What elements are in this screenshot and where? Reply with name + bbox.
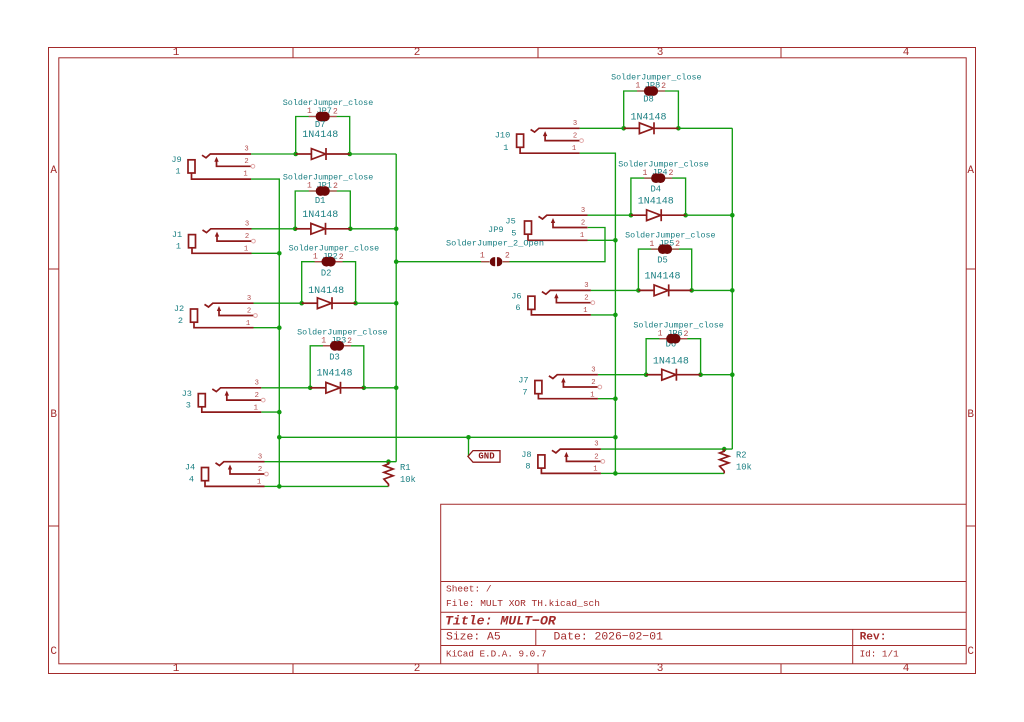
wire jumper loop JP4 <box>631 178 686 215</box>
svg-text:1N4148: 1N4148 <box>653 357 689 368</box>
junction <box>613 238 618 243</box>
svg-text:2: 2 <box>584 295 588 303</box>
title block <box>441 504 967 664</box>
svg-text:1N4148: 1N4148 <box>302 130 338 141</box>
wire left sleeve bus <box>251 179 279 486</box>
svg-text:1: 1 <box>313 252 318 261</box>
junction <box>394 227 399 232</box>
svg-text:1: 1 <box>480 252 485 261</box>
junction <box>277 410 282 415</box>
connector J10 (audio jack) <box>495 120 584 153</box>
wire right OR bus <box>731 128 733 449</box>
pads of JP8 <box>637 90 665 92</box>
junction <box>613 313 618 318</box>
svg-text:J5: J5 <box>505 217 515 227</box>
junction <box>613 396 618 401</box>
junction <box>293 227 298 232</box>
svg-text:1: 1 <box>254 404 258 412</box>
svg-text:7: 7 <box>522 387 527 397</box>
diode D6 <box>646 339 701 380</box>
unconnected pin 2 end of J8 <box>601 460 605 464</box>
solder jumper JP5 <box>625 231 715 254</box>
svg-text:B: B <box>50 409 57 421</box>
svg-text:R2: R2 <box>736 450 747 460</box>
wire OR bus to JP9 pad1 <box>396 261 489 263</box>
solder jumper JP7 <box>283 98 373 121</box>
svg-text:1N4148: 1N4148 <box>316 369 352 380</box>
wire J4 pin1 to sleeve bus <box>265 485 280 487</box>
svg-text:2: 2 <box>573 133 577 141</box>
svg-text:Sheet: /: Sheet: / <box>446 584 492 595</box>
svg-text:8: 8 <box>525 462 530 472</box>
svg-text:2: 2 <box>684 330 689 339</box>
svg-text:3: 3 <box>591 366 595 374</box>
junction <box>730 372 735 377</box>
svg-text:R1: R1 <box>400 463 411 473</box>
svg-text:D4: D4 <box>651 185 662 195</box>
svg-text:2: 2 <box>347 337 352 346</box>
wire jumper loop JP6 <box>646 339 701 375</box>
wire J4 pin1 row to R1 <box>279 485 388 487</box>
svg-text:2: 2 <box>505 252 510 261</box>
pads of JP5 <box>651 248 679 250</box>
solder jumper JP4 <box>618 160 708 183</box>
wire J1 pin1 to sleeve bus <box>252 252 280 254</box>
svg-text:2: 2 <box>591 379 595 387</box>
svg-text:1N4148: 1N4148 <box>308 286 344 297</box>
pads of JP2 <box>315 261 343 263</box>
solder jumper JP9 (SolderJumper_2_Open) <box>446 225 544 266</box>
svg-text:J1: J1 <box>172 230 182 240</box>
svg-text:A: A <box>50 165 57 177</box>
svg-text:2: 2 <box>675 240 680 249</box>
svg-text:2: 2 <box>333 182 338 191</box>
junction <box>347 152 352 157</box>
svg-text:3: 3 <box>255 379 259 387</box>
junction <box>308 386 313 391</box>
svg-text:3: 3 <box>258 453 262 461</box>
junction <box>636 288 641 293</box>
svg-text:4: 4 <box>903 47 910 59</box>
pads of JP6 <box>659 338 687 340</box>
wire left OR bus <box>395 154 397 462</box>
svg-text:File: MULT XOR TH.kicad_sch: File: MULT XOR TH.kicad_sch <box>446 598 600 609</box>
svg-text:1: 1 <box>173 663 180 675</box>
svg-text:1N4148: 1N4148 <box>630 112 666 123</box>
connector J4 (audio jack) <box>185 453 268 486</box>
svg-text:3: 3 <box>245 220 249 228</box>
wire J5 pin3 to D4 <box>588 214 631 216</box>
svg-text:1: 1 <box>583 307 587 315</box>
svg-text:SolderJumper_2_Open: SolderJumper_2_Open <box>446 239 544 249</box>
wire J3 pin3 to D3 <box>261 387 310 389</box>
power label GND <box>468 451 500 463</box>
pads of JP1 <box>309 190 337 192</box>
wire J2 pin3 to D2 <box>254 302 302 304</box>
svg-text:3: 3 <box>594 441 598 449</box>
svg-text:2: 2 <box>244 158 248 166</box>
unconnected pin 2 end of J2 <box>254 314 258 318</box>
diode D3 <box>310 353 364 394</box>
junction <box>613 435 618 440</box>
svg-text:GND: GND <box>478 452 495 462</box>
svg-text:1: 1 <box>307 182 312 191</box>
junction <box>277 435 282 440</box>
junction <box>730 213 735 218</box>
wire J4 pin3 row <box>265 461 397 463</box>
svg-text:1: 1 <box>173 47 180 59</box>
svg-text:6: 6 <box>515 303 520 313</box>
svg-text:3: 3 <box>657 663 664 675</box>
svg-text:2: 2 <box>414 47 421 59</box>
svg-text:2: 2 <box>247 307 251 315</box>
svg-text:2: 2 <box>414 663 421 675</box>
svg-text:3: 3 <box>244 146 248 154</box>
junction <box>277 484 282 489</box>
svg-text:C: C <box>50 646 57 658</box>
svg-text:J6: J6 <box>511 291 521 301</box>
unconnected pin 2 end of J1 <box>252 239 256 243</box>
svg-text:3: 3 <box>584 282 588 290</box>
svg-text:1: 1 <box>643 169 648 178</box>
wire jumper loop JP1 <box>295 191 350 229</box>
junction <box>730 288 735 293</box>
svg-text:3: 3 <box>573 120 577 128</box>
wire J2 pin1 to sleeve bus <box>254 327 280 329</box>
connector J6 (audio jack) <box>511 282 594 315</box>
wire J9 pin3 to D7 <box>251 153 296 155</box>
svg-text:2: 2 <box>258 466 262 474</box>
junction <box>394 259 399 264</box>
junction <box>362 386 367 391</box>
svg-text:Title: MULT−OR: Title: MULT−OR <box>445 614 557 629</box>
svg-text:10k: 10k <box>736 462 752 472</box>
wire D8 cathode to OR bus <box>678 127 732 129</box>
wire D7 cathode to OR bus <box>350 153 397 155</box>
connector J3 (audio jack) <box>182 379 265 412</box>
junction <box>689 288 694 293</box>
junction <box>293 152 298 157</box>
connector J8 (audio jack) <box>521 441 604 474</box>
svg-text:2: 2 <box>178 316 183 326</box>
svg-text:4: 4 <box>903 663 910 675</box>
svg-text:D7: D7 <box>315 120 326 130</box>
svg-text:D8: D8 <box>643 95 654 105</box>
junction <box>629 213 634 218</box>
connector J2 (audio jack) <box>174 295 257 328</box>
pads of JP9 <box>481 261 489 263</box>
wire JP9 pad2 to J5 pin2 <box>503 228 605 262</box>
svg-text:1: 1 <box>593 466 597 474</box>
svg-text:J7: J7 <box>518 376 528 386</box>
svg-text:1: 1 <box>175 167 180 177</box>
junction <box>466 435 471 440</box>
connector J1 (audio jack) <box>172 220 255 253</box>
svg-text:Size: A5: Size: A5 <box>446 632 501 644</box>
connector J9 (audio jack) <box>171 146 254 180</box>
junction <box>386 459 391 464</box>
svg-text:J9: J9 <box>171 155 181 165</box>
wire jumper loop JP8 <box>624 91 679 128</box>
junction <box>644 372 649 377</box>
wire right sleeve bus <box>580 153 616 473</box>
pads of JP7 <box>309 116 337 118</box>
junction <box>348 227 353 232</box>
junction <box>613 471 618 476</box>
junction <box>353 301 358 306</box>
solder jumper JP6 <box>633 320 723 343</box>
diode D4 <box>631 185 686 222</box>
wire J6 pin1 to sleeve bus <box>591 314 616 316</box>
junction <box>722 447 727 452</box>
diode D7 <box>296 120 350 160</box>
svg-text:4: 4 <box>189 474 194 484</box>
solder jumper JP2 <box>289 243 379 266</box>
wire J7 pin3 to D6 <box>598 374 646 376</box>
svg-text:D3: D3 <box>329 353 340 363</box>
svg-text:A: A <box>967 165 974 177</box>
wire J7 pin1 to sleeve bus <box>598 398 616 400</box>
pads of JP4 <box>644 177 672 179</box>
svg-text:J10: J10 <box>495 131 510 141</box>
resistor R1 <box>384 462 416 487</box>
svg-text:Id: 1/1: Id: 1/1 <box>860 649 899 660</box>
wire J1 pin3 to D1 <box>252 228 296 230</box>
svg-text:1: 1 <box>572 145 576 153</box>
svg-text:3: 3 <box>186 400 191 410</box>
junction <box>683 213 688 218</box>
unconnected pin 2 end of J4 <box>265 472 269 476</box>
svg-text:3: 3 <box>657 47 664 59</box>
unconnected pin 2 end of J9 <box>251 164 255 168</box>
svg-text:2: 2 <box>594 453 598 461</box>
solder jumper JP3 <box>297 327 387 350</box>
svg-text:J8: J8 <box>521 450 531 460</box>
svg-text:1: 1 <box>243 171 247 179</box>
svg-text:1N4148: 1N4148 <box>644 272 680 283</box>
connector J7 (audio jack) <box>518 366 601 399</box>
svg-text:1: 1 <box>246 320 250 328</box>
wire GND row <box>279 436 615 438</box>
svg-text:D5: D5 <box>657 255 668 265</box>
svg-text:2: 2 <box>339 253 344 262</box>
unconnected pin 2 end of J7 <box>598 385 602 389</box>
wire jumper loop JP5 <box>638 249 691 290</box>
svg-text:2: 2 <box>581 219 585 227</box>
wire J8 pin3 row <box>601 448 732 450</box>
svg-text:3: 3 <box>581 207 585 215</box>
wire D5 cathode to OR bus <box>692 289 733 291</box>
svg-text:2: 2 <box>333 108 338 117</box>
wire D3 cathode to OR bus <box>364 387 396 389</box>
svg-text:Rev:: Rev: <box>860 632 887 644</box>
junction <box>676 126 681 131</box>
svg-text:D1: D1 <box>315 196 326 206</box>
svg-text:D2: D2 <box>321 268 332 278</box>
svg-text:2: 2 <box>668 169 673 178</box>
wire J3 pin1 to sleeve bus <box>261 411 279 413</box>
unconnected pin 2 end of J10 <box>580 139 584 143</box>
svg-text:J3: J3 <box>182 389 192 399</box>
unconnected pin 2 end of J6 <box>591 301 595 305</box>
svg-text:1: 1 <box>503 143 508 153</box>
svg-text:10k: 10k <box>400 475 416 485</box>
svg-text:2: 2 <box>245 233 249 241</box>
wire J6 pin3 to D5 <box>591 289 639 291</box>
svg-text:1: 1 <box>658 329 663 338</box>
junction <box>394 386 399 391</box>
svg-text:1: 1 <box>580 232 584 240</box>
svg-text:2: 2 <box>661 82 666 91</box>
wire J8 pin1 to sleeve bus <box>601 472 616 474</box>
wire jumper loop JP3 <box>310 346 364 388</box>
wire D1 cathode to OR bus <box>350 228 396 230</box>
wire D2 cathode to OR bus <box>356 302 397 304</box>
svg-text:1: 1 <box>244 245 248 253</box>
svg-text:1: 1 <box>649 240 654 249</box>
svg-text:1N4148: 1N4148 <box>638 197 674 208</box>
svg-text:KiCad E.D.A. 9.0.7: KiCad E.D.A. 9.0.7 <box>446 649 546 660</box>
svg-text:JP9: JP9 <box>488 225 503 235</box>
svg-text:1: 1 <box>307 107 312 116</box>
junction <box>621 126 626 131</box>
junction <box>698 372 703 377</box>
svg-text:1N4148: 1N4148 <box>302 210 338 221</box>
svg-text:2: 2 <box>255 392 259 400</box>
pads of JP3 <box>323 345 351 347</box>
wire GND stub <box>468 437 470 456</box>
svg-text:C: C <box>967 646 974 658</box>
wire D4 cathode to OR bus <box>686 214 733 216</box>
svg-text:1: 1 <box>590 391 594 399</box>
resistor R2 <box>720 449 752 473</box>
wire D6 cathode to OR bus <box>701 374 733 376</box>
diode D1 <box>295 196 350 235</box>
solder jumper JP1 <box>283 173 373 196</box>
wire J8 pin1 row to R2 <box>615 472 724 474</box>
wire jumper loop JP7 <box>296 117 350 155</box>
svg-text:1: 1 <box>257 478 261 486</box>
diode D8 <box>624 95 679 135</box>
diode D5 <box>638 255 691 296</box>
wire J10 pin3 to D8 <box>580 127 624 129</box>
svg-text:1: 1 <box>321 337 326 346</box>
solder jumper JP8 <box>611 73 701 96</box>
wire jumper loop JP2 <box>302 262 356 304</box>
junction <box>277 251 282 256</box>
junction <box>277 325 282 330</box>
diode D2 <box>302 268 356 309</box>
svg-text:1: 1 <box>176 241 181 251</box>
junction <box>299 301 304 306</box>
connector J5 (audio jack) <box>505 207 587 241</box>
svg-text:3: 3 <box>247 295 251 303</box>
wire J5 pin1 to sleeve bus <box>588 239 616 241</box>
unconnected pin 2 end of J3 <box>261 398 265 402</box>
svg-text:B: B <box>967 409 974 421</box>
svg-text:1: 1 <box>635 82 640 91</box>
svg-text:J4: J4 <box>185 463 195 473</box>
svg-text:Date: 2026−02−01: Date: 2026−02−01 <box>554 632 664 644</box>
svg-text:5: 5 <box>511 228 516 238</box>
junction <box>394 301 399 306</box>
svg-text:J2: J2 <box>174 304 184 314</box>
